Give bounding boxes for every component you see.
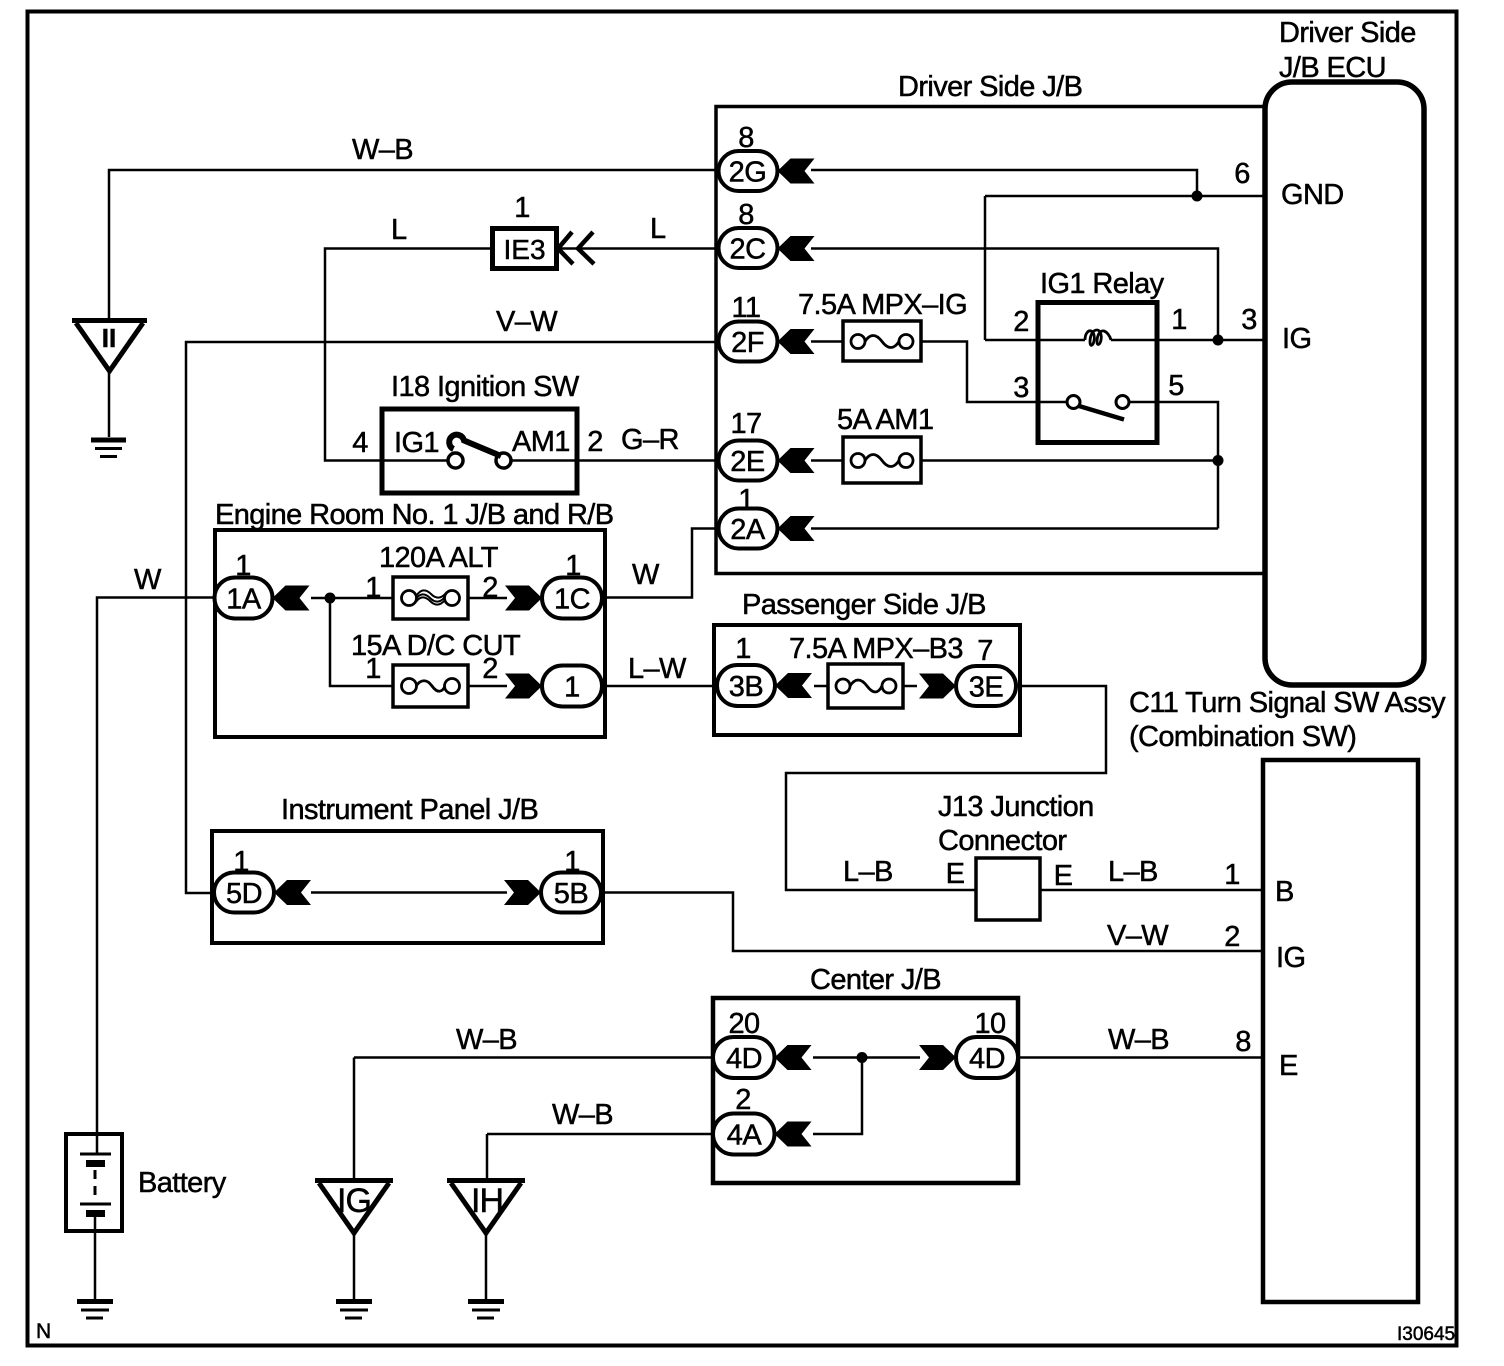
svg-text:1: 1 [1171,304,1187,336]
connector 2A [719,509,778,549]
svg-text:W: W [134,564,162,596]
relay switch contact 3 [1067,396,1080,409]
connector 2C [719,228,778,268]
svg-text:2: 2 [735,1084,751,1116]
arrow into 4D right [919,1045,956,1070]
connector 3B [717,665,775,706]
svg-text:W–B: W–B [456,1024,517,1056]
fuse 5A AM1 [843,437,921,483]
wire 2E arrow to AM1 fuse [811,459,843,462]
svg-text:L: L [650,213,666,245]
svg-text:B: B [1275,876,1294,908]
svg-text:3: 3 [1241,304,1257,336]
arrow into oval 1 [505,674,542,699]
IG1 relay box [1038,303,1157,443]
arrow at 1A [273,586,310,611]
svg-text:8: 8 [738,199,754,231]
ground symbol IH [468,1302,504,1319]
junction dot 4D branch [857,1052,868,1063]
svg-text:L: L [391,214,407,246]
connector 1C [542,578,602,619]
fuse 120A ALT [393,577,468,619]
svg-text:2A: 2A [730,514,766,546]
svg-text:3B: 3B [729,671,763,703]
svg-text:4: 4 [352,427,368,459]
svg-text:1: 1 [514,192,530,224]
J13 junction connector box [976,858,1040,920]
wire 2A to node riser [811,527,1218,530]
svg-text:5B: 5B [554,878,588,910]
svg-text:IG: IG [337,1182,371,1220]
svg-text:7.5A MPX–IG: 7.5A MPX–IG [798,289,967,321]
svg-text:Passenger Side J/B: Passenger Side J/B [742,589,986,621]
svg-text:10: 10 [974,1008,1005,1040]
svg-text:IH: IH [471,1182,503,1220]
battery plates [80,1154,111,1214]
ground symbol battery [77,1302,113,1319]
arrow at 5D [274,880,311,905]
svg-text:L–B: L–B [843,856,893,888]
svg-text:Center J/B: Center J/B [810,964,941,996]
arrow at 2C [778,236,815,261]
svg-text:3: 3 [1013,372,1029,404]
arrow at 2F [778,329,815,354]
svg-text:1: 1 [233,846,249,878]
connector 3E [956,666,1016,706]
battery box [66,1134,122,1231]
wire W-B left to 4A [487,1133,715,1136]
Center J/B box [713,998,1018,1183]
wire AM1 fuse to node [921,459,1218,462]
svg-text:1: 1 [564,672,580,704]
wire ALT fuse to 1C [468,597,507,600]
svg-text:5D: 5D [226,878,262,910]
wire 1A arrow to ALT fuse [311,597,393,600]
relay switch lever [1079,406,1124,420]
svg-text:E: E [1279,1050,1298,1082]
wire battery to ground [94,1213,97,1299]
svg-text:2: 2 [482,653,498,685]
wire L-W oval 1 to 3B [602,685,718,688]
svg-text:5A AM1: 5A AM1 [837,404,933,436]
wire coil pin1 to ECU IG pin 3 [1111,339,1265,342]
svg-text:N: N [36,1320,51,1343]
svg-text:J/B ECU: J/B ECU [1279,52,1386,84]
svg-text:4D: 4D [726,1043,762,1075]
svg-text:1: 1 [1224,859,1240,891]
I18 ignition switch box [382,409,577,493]
svg-text:E: E [1054,860,1073,892]
wire relay coil pin 2 riser to GND [984,196,987,340]
svg-text:Driver Side: Driver Side [1279,17,1416,49]
svg-text:GND: GND [1281,179,1344,211]
svg-text:Driver Side J/B: Driver Side J/B [898,71,1082,103]
arrow into 3E [919,674,956,699]
svg-text:1C: 1C [554,584,590,616]
arrow into 1C [505,586,542,611]
svg-text:20: 20 [728,1008,759,1040]
svg-text:Battery: Battery [138,1167,227,1199]
C11 Turn Signal SW box [1263,760,1418,1302]
connector 5D [214,873,274,913]
arrow at 2E [778,448,815,473]
svg-text:1: 1 [365,572,381,604]
svg-text:1: 1 [735,633,751,665]
junction dot GND [1192,191,1203,202]
connector 1 (engine room) [542,666,602,707]
svg-text:2: 2 [482,572,498,604]
arrow at 4A [775,1122,812,1147]
svg-text:2: 2 [1224,921,1240,953]
arrow at 3B [775,673,812,698]
svg-text:1A: 1A [226,584,262,616]
ground symbol IG [336,1302,372,1319]
wire 4D arrow to 4D arrow [813,1056,920,1059]
svg-text:G–R: G–R [621,424,679,456]
wire 5D to 5B inside instrument panel [311,891,507,894]
wire 3B arrow to MPX-B3 fuse [814,685,828,688]
wire V-W from 2F to left riser down to 5D [186,342,780,893]
svg-text:V–W: V–W [496,306,558,338]
connector 4D right [956,1037,1018,1078]
svg-text:5: 5 [1168,370,1184,402]
svg-text:1: 1 [565,550,581,582]
connector 2F [719,322,778,362]
svg-text:2C: 2C [729,234,765,266]
wire V-W 5B to C11 pin 2 [601,893,1263,952]
junction dot 1A branch [325,593,336,604]
connector 1A [215,578,273,619]
wire 2F arrow to fuse [811,340,843,343]
Engine Room No.1 J/B box [215,530,605,737]
svg-text:2: 2 [587,426,603,458]
junction dot AM1 [1213,455,1224,466]
svg-text:I30645: I30645 [1397,1324,1455,1345]
arrow into 5B [504,880,541,905]
svg-text:W–B: W–B [1108,1024,1169,1056]
svg-text:4D: 4D [969,1043,1005,1075]
svg-text:IG1 Relay: IG1 Relay [1040,268,1165,300]
Driver Side J/B ECU box U1 [1265,82,1424,685]
wire branch down to D/C CUT fuse [330,598,393,686]
relay coil [1085,330,1111,345]
wire W-B left to 4D [354,1056,715,1059]
IE3 double chevron [558,232,594,264]
wire 3E to L-B run down to J13 row [786,686,1106,890]
svg-text:2F: 2F [731,327,764,359]
svg-text:Instrument Panel J/B: Instrument Panel J/B [281,794,538,826]
wire W battery riser to 1A [97,598,216,1156]
connector 2G [719,151,778,191]
wire GND junction to ECU pin 6 [985,195,1265,198]
connector 2E [719,441,778,481]
svg-text:4A: 4A [727,1120,763,1152]
arrow at 2A [778,516,815,541]
wire W-B 4D to C11 pin 8 [1018,1056,1263,1059]
svg-text:1: 1 [365,653,381,685]
arrow at 4D left [775,1045,812,1070]
svg-text:11: 11 [732,292,761,324]
ground triangle IH [447,1181,525,1234]
svg-text:L–W: L–W [628,653,687,685]
ignition switch contact IG1 [448,453,463,468]
svg-text:J13 Junction: J13 Junction [938,791,1094,823]
ground symbol below II [91,440,126,457]
wire branch down to 4A [813,1058,862,1135]
svg-text:C11 Turn Signal SW Assy: C11 Turn Signal SW Assy [1129,687,1446,719]
junction dot relay pin1 [1213,335,1224,346]
svg-text:(Combination SW): (Combination SW) [1129,721,1356,753]
svg-text:W: W [632,559,660,591]
svg-text:W–B: W–B [352,134,413,166]
wire II triangle apex to ground [108,372,111,437]
wire 2C to relay pin1 node [811,249,1218,341]
svg-text:II: II [102,323,116,353]
svg-text:7.5A MPX–B3: 7.5A MPX–B3 [789,633,963,665]
Passenger Side J/B box [714,625,1020,735]
svg-text:8: 8 [1235,1026,1251,1058]
svg-text:L–B: L–B [1108,856,1158,888]
ground triangle IG [315,1181,393,1234]
wire L from 2C to IE3 chevrons [557,247,780,250]
fuse 15A D/C CUT [393,665,468,707]
svg-text:W–B: W–B [552,1099,613,1131]
connector 5B [541,873,601,913]
wire 2F fuse to relay pin 3 [921,342,1067,403]
svg-text:1: 1 [235,550,251,582]
wire IG triangle to ground [353,1233,356,1299]
svg-text:E: E [946,858,965,890]
svg-text:IE3: IE3 [503,234,545,265]
relay switch contact 5 [1116,396,1129,409]
wire W-B riser to IH triangle [486,1134,489,1180]
wire W-B from node II to 2G [109,170,780,320]
Instrument Panel J/B box [212,831,603,943]
wire MPX-B3 fuse to 3E [903,685,917,688]
fuse 7.5A MPX-IG [843,321,921,361]
fuse 7.5A MPX-B3 [828,664,903,708]
svg-text:I18 Ignition SW: I18 Ignition SW [391,371,580,403]
svg-text:17: 17 [730,408,761,440]
wire G-R ignition AM1 to 2E [510,459,780,462]
ground node II triangle [72,321,147,372]
arrow at 2G [778,159,815,184]
svg-text:AM1: AM1 [512,426,570,458]
wire L from IE3 to corner and ignition switch [325,249,493,461]
wire L-B J13 to C11 pin 1 [1040,889,1263,892]
wire W-B riser to IG triangle [353,1058,356,1181]
svg-text:2G: 2G [729,157,767,189]
wire node down to 2A row [1217,461,1220,529]
svg-text:IG1: IG1 [394,427,439,459]
wire relay pin5 to AM1 node [1129,402,1218,461]
wire D/C CUT fuse to oval 1 [468,685,507,688]
svg-text:120A ALT: 120A ALT [379,542,499,574]
ignition switch contact AM1 [496,453,511,468]
svg-text:1: 1 [738,484,754,516]
svg-text:1: 1 [564,846,580,878]
svg-text:Connector: Connector [938,825,1067,857]
wire IH triangle to ground [485,1233,488,1299]
ignition switch lever [449,435,501,456]
Driver Side J/B box [716,107,1265,574]
connector 4D left [713,1037,775,1078]
wire GND 2G to junction [811,170,1197,196]
connector 4A [713,1114,775,1155]
svg-text:V–W: V–W [1107,920,1169,952]
svg-text:7: 7 [977,635,993,667]
svg-text:IG: IG [1282,323,1311,355]
svg-text:3E: 3E [969,672,1004,704]
wire coil pin2 segment [985,339,1085,342]
svg-text:IG: IG [1276,942,1305,974]
svg-text:8: 8 [738,122,754,154]
svg-text:2: 2 [1013,306,1029,338]
IE3 connector box [493,229,557,269]
svg-text:2E: 2E [730,446,765,478]
svg-text:Engine Room No. 1 J/B and R/B: Engine Room No. 1 J/B and R/B [215,499,613,531]
svg-text:6: 6 [1234,158,1250,190]
wire 1C to 2A [602,529,720,598]
